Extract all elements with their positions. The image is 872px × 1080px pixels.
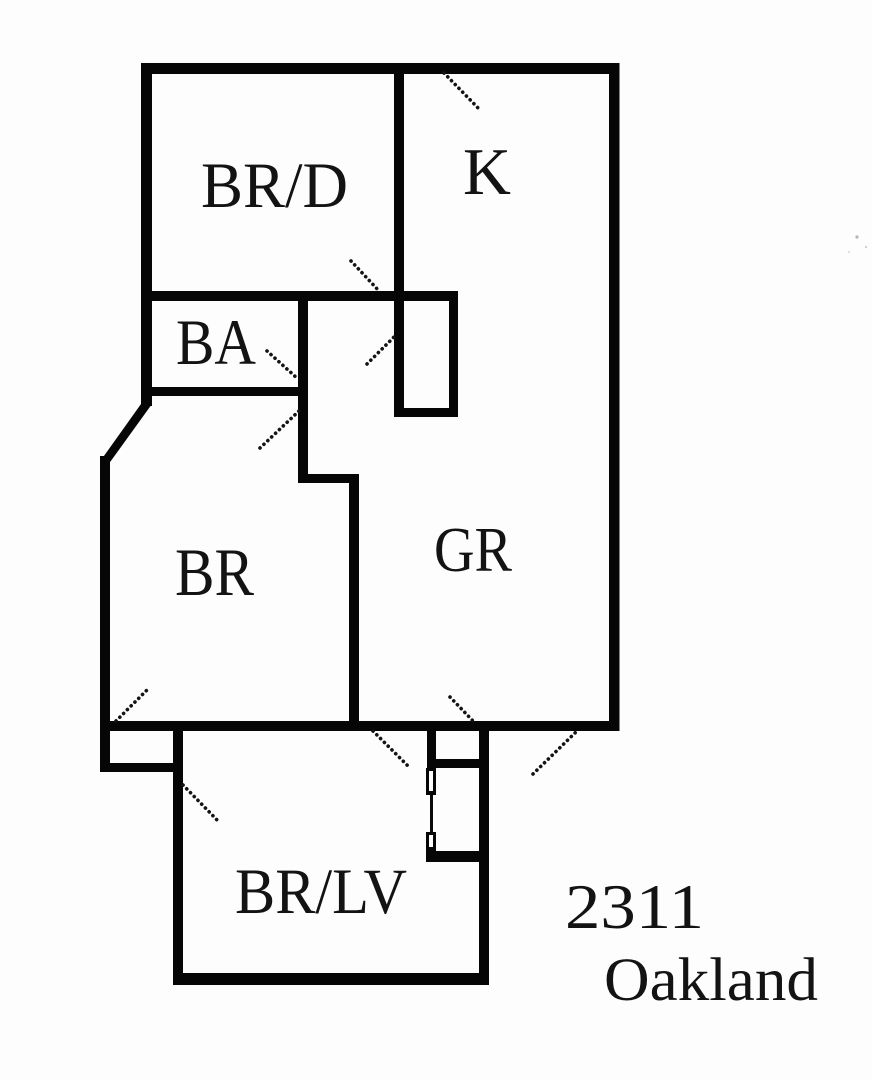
svg-text:K: K [463, 135, 511, 209]
wall: BR/D bottom horizontal [141, 291, 458, 301]
svg-text:GR: GR [434, 514, 512, 585]
wall: BR/LV right vertical [479, 721, 489, 985]
wall: top exterior [141, 63, 619, 74]
wall: cell bottom bar [426, 851, 483, 862]
door swing: passage left [373, 731, 410, 768]
jamb slot bottom [429, 835, 433, 847]
wall: left exterior lower [100, 456, 110, 772]
wall: BR/LV bottom horizontal [173, 973, 489, 985]
door swing: passage right [533, 731, 577, 774]
wall: door jamb bottom [426, 832, 436, 851]
door swing: BR lower left [116, 687, 150, 721]
wall: closet bottom horizontal [394, 408, 458, 417]
jamb slot top [429, 771, 433, 791]
wall: BR/LV left vertical [173, 721, 183, 985]
wall: angled left corner [100, 404, 152, 462]
door leaf thin line [430, 795, 433, 834]
wall: K divider vertical [394, 63, 404, 417]
wall: cell divider bar [427, 759, 488, 768]
wall: right exterior [609, 63, 620, 731]
door swing: BR/D [351, 261, 380, 292]
wall: left exterior upper [141, 63, 152, 406]
door swing: closet [367, 337, 394, 364]
faint scan speck [848, 235, 867, 253]
door swing: BR/LV left [183, 785, 220, 823]
door swing: BR upper [260, 411, 299, 448]
door swing: passage top [450, 697, 473, 721]
svg-text:BR: BR [175, 534, 255, 610]
wall: BR right vertical [349, 474, 359, 731]
svg-text:Oakland: Oakland [604, 947, 818, 1014]
svg-text:BA: BA [176, 307, 256, 379]
wall: long bottom horizontal [100, 721, 619, 731]
svg-text:BR/D: BR/D [201, 150, 348, 222]
wall: cell left upper vertical [427, 729, 436, 768]
wall: closet right vertical [449, 291, 458, 417]
door swing: K [444, 73, 481, 111]
door swing: BA [267, 351, 298, 379]
wall: BA bottom horizontal [141, 387, 308, 396]
svg-text:BR/LV: BR/LV [235, 856, 407, 928]
svg-text:2311: 2311 [565, 872, 704, 942]
wall: step horizontal [298, 474, 359, 483]
wall: BA right vertical [298, 291, 308, 483]
wall: notch bottom horizontal [100, 763, 173, 772]
wall: door jamb top [426, 768, 436, 795]
